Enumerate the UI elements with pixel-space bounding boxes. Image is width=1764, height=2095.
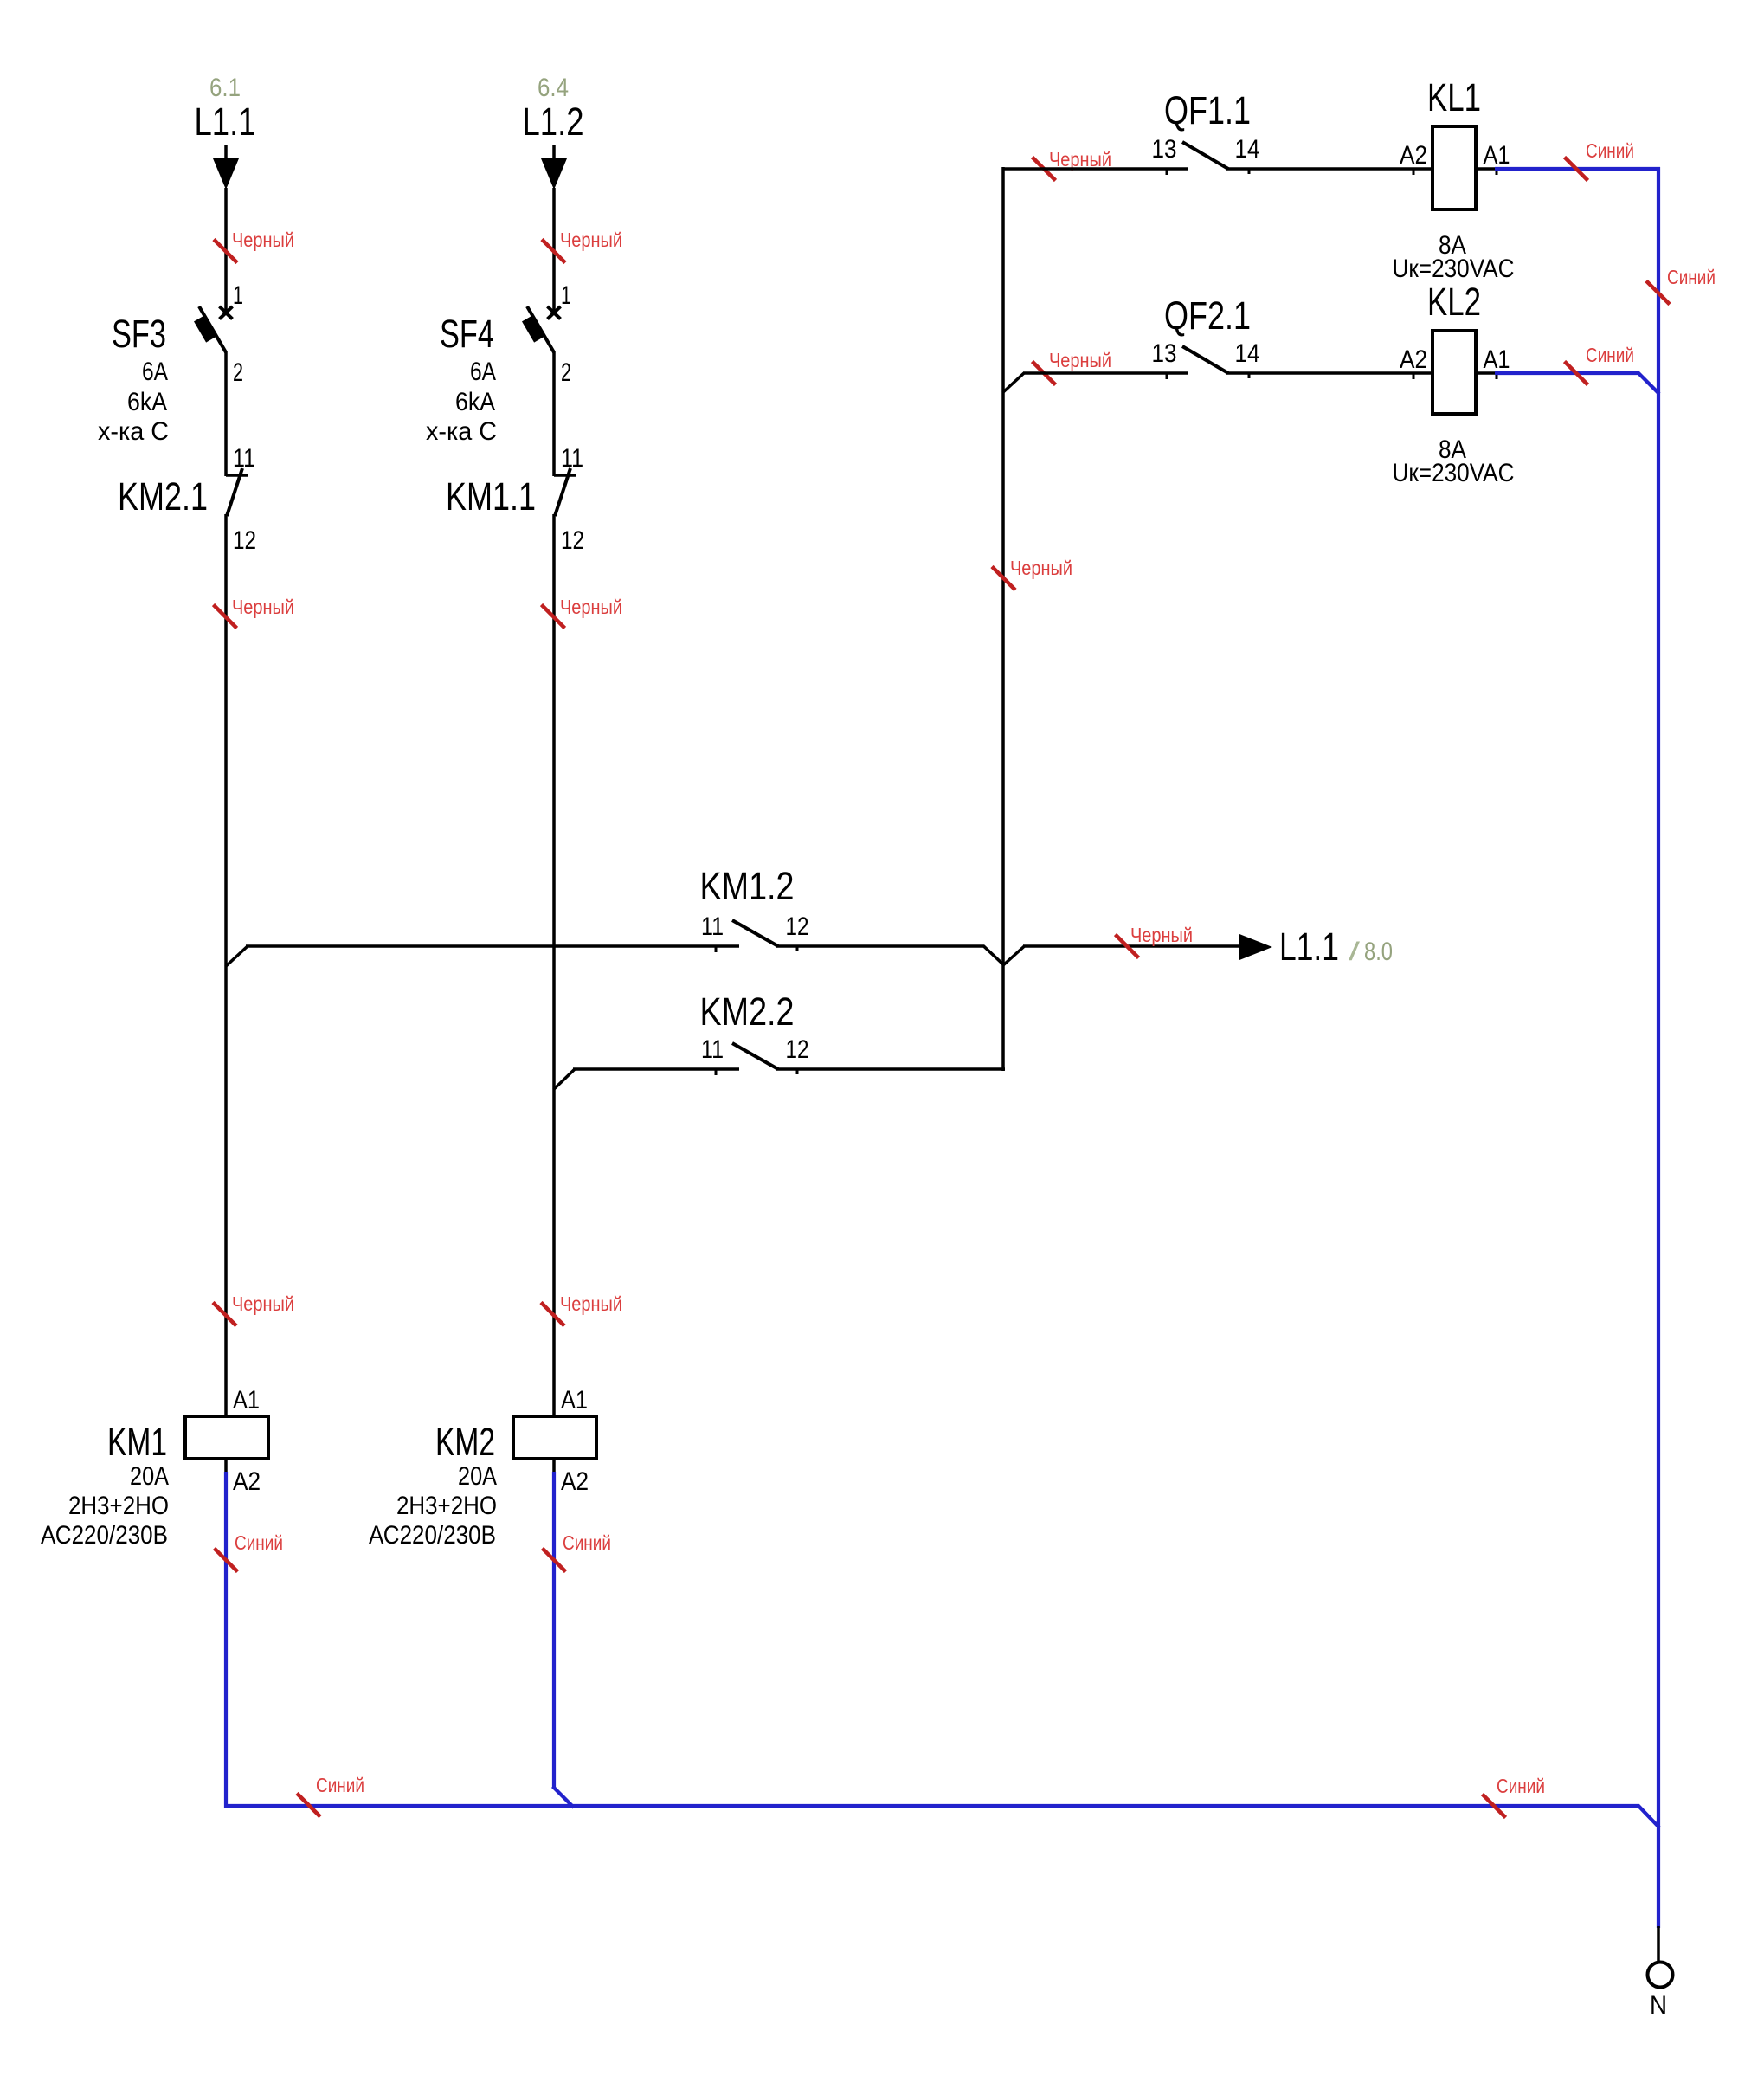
wire bbox=[552, 351, 556, 476]
wire bbox=[776, 944, 984, 948]
svg-text:A2: A2 bbox=[561, 1467, 589, 1496]
pin tick bbox=[796, 1069, 799, 1074]
coil KM2 bbox=[513, 1416, 596, 1459]
pin tick bbox=[1496, 169, 1498, 175]
svg-text:14: 14 bbox=[1235, 339, 1260, 368]
pin tick bbox=[1413, 169, 1415, 175]
svg-text:АС220/230В: АС220/230В bbox=[41, 1521, 168, 1550]
svg-text:Черный: Черный bbox=[560, 1292, 622, 1315]
wire bbox=[224, 145, 228, 161]
svg-text:2Н3+2НО: 2Н3+2НО bbox=[68, 1492, 169, 1520]
contact KM1.1 blade bbox=[555, 468, 570, 516]
svg-text:Черный: Черный bbox=[232, 229, 294, 251]
svg-text:N: N bbox=[1650, 1991, 1667, 2020]
wire blue bbox=[1495, 371, 1639, 375]
svg-text:х-ка С: х-ка С bbox=[426, 417, 497, 446]
pin tick bbox=[1413, 373, 1415, 379]
wire color slash bbox=[215, 1549, 238, 1572]
svg-text:A2: A2 bbox=[1400, 141, 1427, 170]
wire bbox=[552, 145, 556, 161]
svg-text:8.0: 8.0 bbox=[1364, 938, 1393, 966]
svg-text:Синий: Синий bbox=[316, 1774, 364, 1796]
svg-text:A1: A1 bbox=[233, 1386, 260, 1415]
svg-text:Синий: Синий bbox=[235, 1531, 283, 1554]
wire color slash bbox=[214, 605, 237, 628]
wire bbox=[573, 1067, 739, 1071]
svg-text:QF1.1: QF1.1 bbox=[1164, 88, 1251, 132]
wire blue bbox=[1495, 167, 1660, 171]
svg-text:11: 11 bbox=[233, 444, 255, 473]
wire color slash bbox=[992, 567, 1015, 590]
breaker SF4 contact X bbox=[548, 306, 561, 319]
arrow to L1.1 bbox=[1239, 934, 1272, 960]
svg-text:L1.2: L1.2 bbox=[523, 100, 584, 144]
svg-text:Синий: Синий bbox=[563, 1531, 611, 1554]
svg-text:1: 1 bbox=[233, 281, 243, 310]
svg-text:12: 12 bbox=[233, 526, 256, 555]
wire bbox=[1476, 167, 1496, 171]
relay coil KL2 bbox=[1432, 331, 1476, 414]
wire bbox=[776, 1067, 1005, 1071]
wire bbox=[1226, 167, 1432, 171]
svg-text:L1.1: L1.1 bbox=[1279, 925, 1339, 969]
wire color slash bbox=[1033, 158, 1056, 181]
svg-text:KM2.1: KM2.1 bbox=[118, 474, 208, 519]
terminal N bbox=[1648, 1963, 1673, 1988]
svg-text:SF3: SF3 bbox=[112, 312, 166, 356]
wire color slash bbox=[213, 1303, 236, 1326]
wire bbox=[224, 1459, 228, 1473]
svg-text:Черный: Черный bbox=[560, 596, 622, 618]
breaker SF4 lever bbox=[527, 306, 554, 352]
pin tick bbox=[796, 946, 799, 951]
svg-text:11: 11 bbox=[701, 912, 724, 941]
svg-text:20A: 20A bbox=[130, 1462, 169, 1491]
wire bbox=[1023, 371, 1188, 375]
svg-text:1: 1 bbox=[561, 281, 571, 310]
svg-text:A1: A1 bbox=[1484, 345, 1510, 374]
wire bbox=[1001, 167, 1005, 1071]
wire bbox=[1226, 371, 1432, 375]
wire color slash bbox=[1116, 935, 1139, 958]
svg-text:QF2.1: QF2.1 bbox=[1164, 293, 1251, 338]
breaker SF3 contact X bbox=[220, 306, 233, 319]
wire bbox=[552, 514, 556, 1416]
svg-text:Черный: Черный bbox=[560, 229, 622, 251]
contact QF1.1 blade bbox=[1182, 142, 1228, 169]
wire neutral blue bbox=[224, 1472, 228, 1808]
wire blue joint bbox=[553, 1787, 575, 1808]
svg-text:6A: 6A bbox=[142, 358, 168, 386]
svg-text:6kA: 6kA bbox=[455, 388, 495, 416]
svg-text:12: 12 bbox=[786, 912, 809, 941]
arrow into L1.1 bbox=[213, 158, 239, 190]
svg-text:11: 11 bbox=[701, 1035, 724, 1064]
svg-text:KM2: KM2 bbox=[435, 1420, 495, 1464]
pin tick bbox=[1496, 373, 1498, 379]
wire bbox=[1023, 944, 1240, 948]
svg-text:A2: A2 bbox=[233, 1467, 261, 1496]
wire bbox=[1476, 371, 1496, 375]
svg-text:KL2: KL2 bbox=[1427, 280, 1481, 324]
svg-text:KM1.1: KM1.1 bbox=[446, 474, 536, 519]
contact KM1.2 blade bbox=[732, 920, 778, 946]
wire joint bbox=[1003, 946, 1025, 966]
svg-text:Uк=230VAC: Uк=230VAC bbox=[1393, 459, 1515, 487]
svg-text:13: 13 bbox=[1152, 135, 1177, 164]
svg-text:11: 11 bbox=[561, 444, 583, 473]
wire bbox=[552, 188, 556, 311]
wire color slash bbox=[1033, 362, 1056, 385]
wire color slash bbox=[1565, 362, 1588, 385]
wire color slash bbox=[214, 240, 237, 263]
svg-text:14: 14 bbox=[1235, 135, 1260, 164]
wire color slash bbox=[542, 605, 565, 628]
relay coil KL1 bbox=[1432, 126, 1476, 209]
wire color slash bbox=[543, 1549, 566, 1572]
svg-text:Синий: Синий bbox=[1586, 139, 1634, 162]
wire neutral bus bbox=[224, 1804, 1639, 1808]
wire bbox=[224, 351, 228, 476]
svg-text:/: / bbox=[1349, 938, 1361, 966]
wire blue joint bbox=[1638, 373, 1660, 395]
svg-text:6.4: 6.4 bbox=[538, 74, 569, 102]
svg-text:6kA: 6kA bbox=[127, 388, 167, 416]
wire bbox=[224, 514, 228, 1416]
svg-text:6A: 6A bbox=[470, 358, 496, 386]
coil KM1 bbox=[185, 1416, 268, 1459]
wire blue joint bbox=[1638, 1806, 1660, 1828]
contact KM2.1 seat bbox=[226, 474, 248, 477]
wire joint bbox=[1003, 373, 1025, 393]
svg-text:KL1: KL1 bbox=[1427, 75, 1481, 119]
svg-text:Черный: Черный bbox=[1010, 557, 1072, 579]
arrow into L1.2 bbox=[541, 158, 567, 190]
svg-text:KM2.2: KM2.2 bbox=[700, 989, 795, 1034]
svg-text:Черный: Черный bbox=[232, 596, 294, 618]
wire to N bbox=[1657, 1926, 1660, 1963]
pin tick bbox=[1248, 169, 1251, 174]
pin tick bbox=[715, 1069, 718, 1075]
svg-text:20A: 20A bbox=[458, 1462, 497, 1491]
wire color slash bbox=[1646, 281, 1670, 305]
svg-text:6.1: 6.1 bbox=[209, 74, 241, 102]
pin tick bbox=[1166, 169, 1168, 175]
svg-text:L1.1: L1.1 bbox=[195, 100, 256, 144]
svg-text:Синий: Синий bbox=[1497, 1775, 1545, 1797]
wire joint bbox=[554, 1069, 576, 1090]
svg-text:12: 12 bbox=[561, 526, 584, 555]
breaker SF4 body bbox=[522, 315, 544, 342]
wire neutral blue bbox=[552, 1472, 556, 1788]
pin tick bbox=[715, 946, 718, 952]
contact KM2.2 blade bbox=[732, 1043, 778, 1069]
wire color slash bbox=[1565, 158, 1588, 181]
svg-text:SF4: SF4 bbox=[440, 312, 494, 356]
svg-text:х-ка С: х-ка С bbox=[98, 417, 169, 446]
svg-text:Синий: Синий bbox=[1586, 344, 1634, 366]
svg-text:Черный: Черный bbox=[1049, 349, 1111, 371]
wire bbox=[224, 188, 228, 311]
breaker SF3 lever bbox=[199, 306, 226, 352]
pin tick bbox=[1248, 373, 1251, 378]
svg-text:АС220/230В: АС220/230В bbox=[369, 1521, 496, 1550]
svg-text:KM1: KM1 bbox=[107, 1420, 167, 1464]
wire joint bbox=[226, 946, 248, 967]
svg-text:Синий: Синий bbox=[1667, 266, 1716, 288]
wire bbox=[552, 1459, 556, 1473]
svg-text:Черный: Черный bbox=[1130, 924, 1193, 946]
svg-text:2Н3+2НО: 2Н3+2НО bbox=[396, 1492, 497, 1520]
breaker SF3 body bbox=[194, 315, 216, 342]
pin tick bbox=[1166, 373, 1168, 379]
svg-text:2: 2 bbox=[233, 358, 243, 387]
svg-text:KM1.2: KM1.2 bbox=[700, 864, 795, 908]
contact KM1.1 seat bbox=[554, 474, 576, 477]
contact KM2.1 blade bbox=[227, 468, 242, 516]
wire joint bbox=[983, 946, 1004, 966]
wire color slash bbox=[542, 240, 565, 263]
svg-text:A1: A1 bbox=[561, 1386, 588, 1415]
svg-text:A2: A2 bbox=[1400, 345, 1427, 374]
wire color slash bbox=[541, 1303, 564, 1326]
svg-text:13: 13 bbox=[1152, 339, 1177, 368]
wire color slash bbox=[297, 1794, 320, 1817]
svg-text:2: 2 bbox=[561, 358, 571, 387]
wire bbox=[246, 944, 739, 948]
svg-text:Черный: Черный bbox=[232, 1292, 294, 1315]
wire color slash bbox=[1483, 1795, 1506, 1818]
svg-text:A1: A1 bbox=[1484, 141, 1510, 170]
svg-text:12: 12 bbox=[786, 1035, 809, 1064]
wire neutral riser bbox=[1657, 167, 1660, 1928]
svg-text:Черный: Черный bbox=[1049, 148, 1111, 171]
contact QF2.1 blade bbox=[1182, 346, 1228, 373]
wire bbox=[1003, 167, 1188, 171]
